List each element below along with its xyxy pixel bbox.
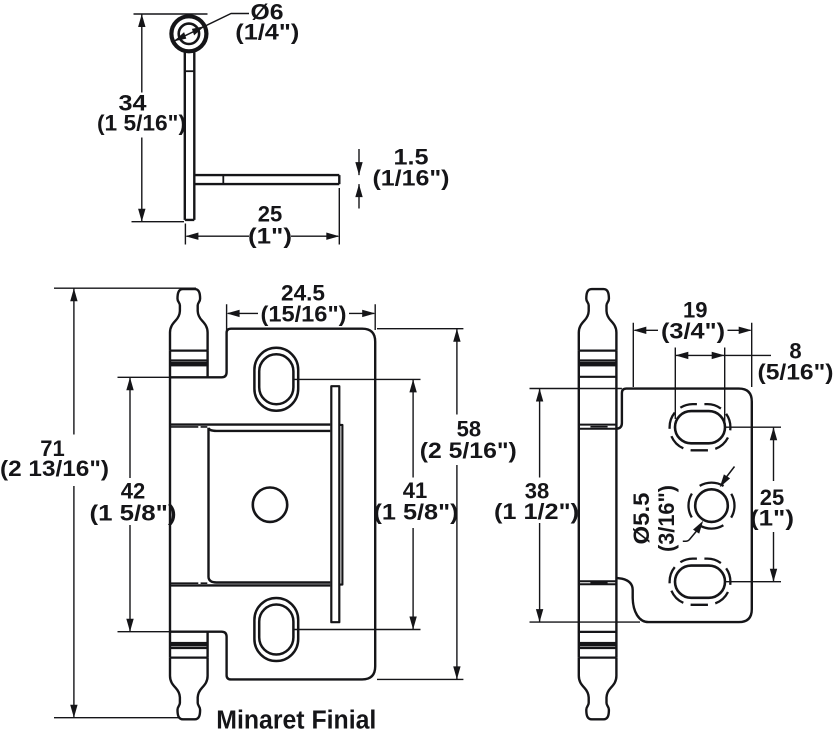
38 extension lines across barrel (530, 389, 641, 623)
svg-text:(1/16"): (1/16") (373, 165, 450, 190)
barrel black band bottom (170, 642, 208, 647)
barrel ring lines bottom (170, 648, 208, 658)
wrap body bottom seam dashes (171, 582, 207, 584)
hole leader upper (725, 467, 735, 480)
top finial (right) (579, 289, 617, 351)
dimension 58 (456, 329, 458, 680)
svg-text:Minaret Finial: Minaret Finial (216, 707, 376, 730)
pin bar tick (185, 70, 195, 72)
svg-text:(1"): (1") (750, 506, 794, 531)
svg-text:(1 5/16"): (1 5/16") (97, 111, 186, 136)
svg-text:(3/4"): (3/4") (661, 318, 725, 343)
top slot outer (254, 348, 298, 411)
side plate top slot dashed (670, 404, 731, 450)
barrel right edge segments (206, 351, 208, 658)
dimension 8 (675, 348, 724, 427)
slot centre extension lines (293, 379, 420, 629)
barrel black band bottom (right) (579, 642, 617, 647)
knuckle outer circle (171, 16, 206, 51)
leaf (horizontal flange) (194, 175, 339, 184)
knuckle inner circle (pin) (179, 24, 199, 44)
25 extension lines (right) (725, 427, 781, 582)
side plate centre hole (695, 489, 728, 522)
svg-text:(5/16"): (5/16") (758, 359, 834, 384)
bottom slot outer (254, 598, 298, 661)
diameter leader line to label (174, 14, 249, 42)
svg-text:(1 5/8"): (1 5/8") (374, 499, 459, 524)
wrap body top edge (170, 423, 330, 425)
leaf joint tick (222, 175, 224, 184)
second strip (other leaf edge) (339, 425, 342, 585)
barrel ring lines top (right) (579, 351, 617, 361)
top finial (170, 289, 208, 351)
barrel black band top (right) (579, 362, 617, 367)
side plate outline (616, 389, 751, 622)
knuckle seam bottom (579, 581, 617, 584)
junction extension lines to 42-dim (118, 377, 171, 631)
dimension 19 (633, 323, 751, 387)
barrel edges (right) (579, 351, 617, 658)
bottom slot inner (259, 605, 293, 655)
dimension 38 (539, 389, 541, 623)
bottom finial (right) (579, 658, 617, 720)
wrap body bottom inner line (209, 578, 331, 583)
side plate bottom slot (675, 566, 725, 598)
wrap inner vertical edge (207, 428, 209, 578)
svg-text:(1"): (1") (248, 224, 292, 249)
bottom finial (170, 658, 208, 720)
side plate edge-view strip (331, 386, 339, 622)
diameter arrow upper-right (192, 26, 205, 35)
center screw hole (253, 488, 287, 522)
mounting plate outline (170, 329, 375, 680)
wrap body bottom edge (170, 584, 330, 586)
knuckle seam top (579, 425, 617, 429)
barrel ring lines bottom (right) (579, 648, 617, 658)
dimension 25 (top view) (185, 188, 339, 245)
dimension 25 (right) (773, 427, 775, 582)
wrap body top inner line (209, 428, 331, 431)
svg-text:(1/4"): (1/4") (235, 19, 299, 44)
dimension 42 (129, 377, 131, 631)
svg-text:(2 13/16"): (2 13/16") (0, 456, 109, 481)
svg-text:(3/16"): (3/16") (654, 485, 679, 552)
svg-text:(15/16"): (15/16") (261, 301, 347, 326)
side plate top slot (675, 411, 725, 443)
barrel left edge (169, 351, 171, 658)
dimension 34 extension lines (132, 14, 208, 222)
svg-text:(1 5/8"): (1 5/8") (90, 500, 177, 525)
dimension 34 line (141, 14, 143, 222)
svg-text:(2 5/16"): (2 5/16") (420, 438, 517, 463)
wrap body top seam dashes (171, 426, 207, 428)
dimension 24.5 (227, 304, 376, 330)
dimension 1.5 (leaf thickness) (358, 149, 360, 209)
dimension 41 (412, 379, 414, 629)
dimension 71 (54, 288, 196, 718)
svg-text:(1 1/2"): (1 1/2") (494, 499, 579, 524)
barrel step lines (579, 377, 617, 632)
side plate centre hole dashed (689, 483, 735, 529)
barrel black band top (170, 362, 208, 367)
pin bar (hinge pin cross-section) (185, 52, 195, 220)
barrel ring lines top (170, 351, 208, 361)
top slot inner (259, 354, 293, 404)
hole leader lower (683, 531, 697, 542)
diameter arrow lower-left (174, 32, 187, 41)
58 extension lines (377, 329, 463, 680)
svg-text:Ø5.5: Ø5.5 (629, 493, 654, 545)
side plate bottom slot dashed (670, 559, 731, 605)
